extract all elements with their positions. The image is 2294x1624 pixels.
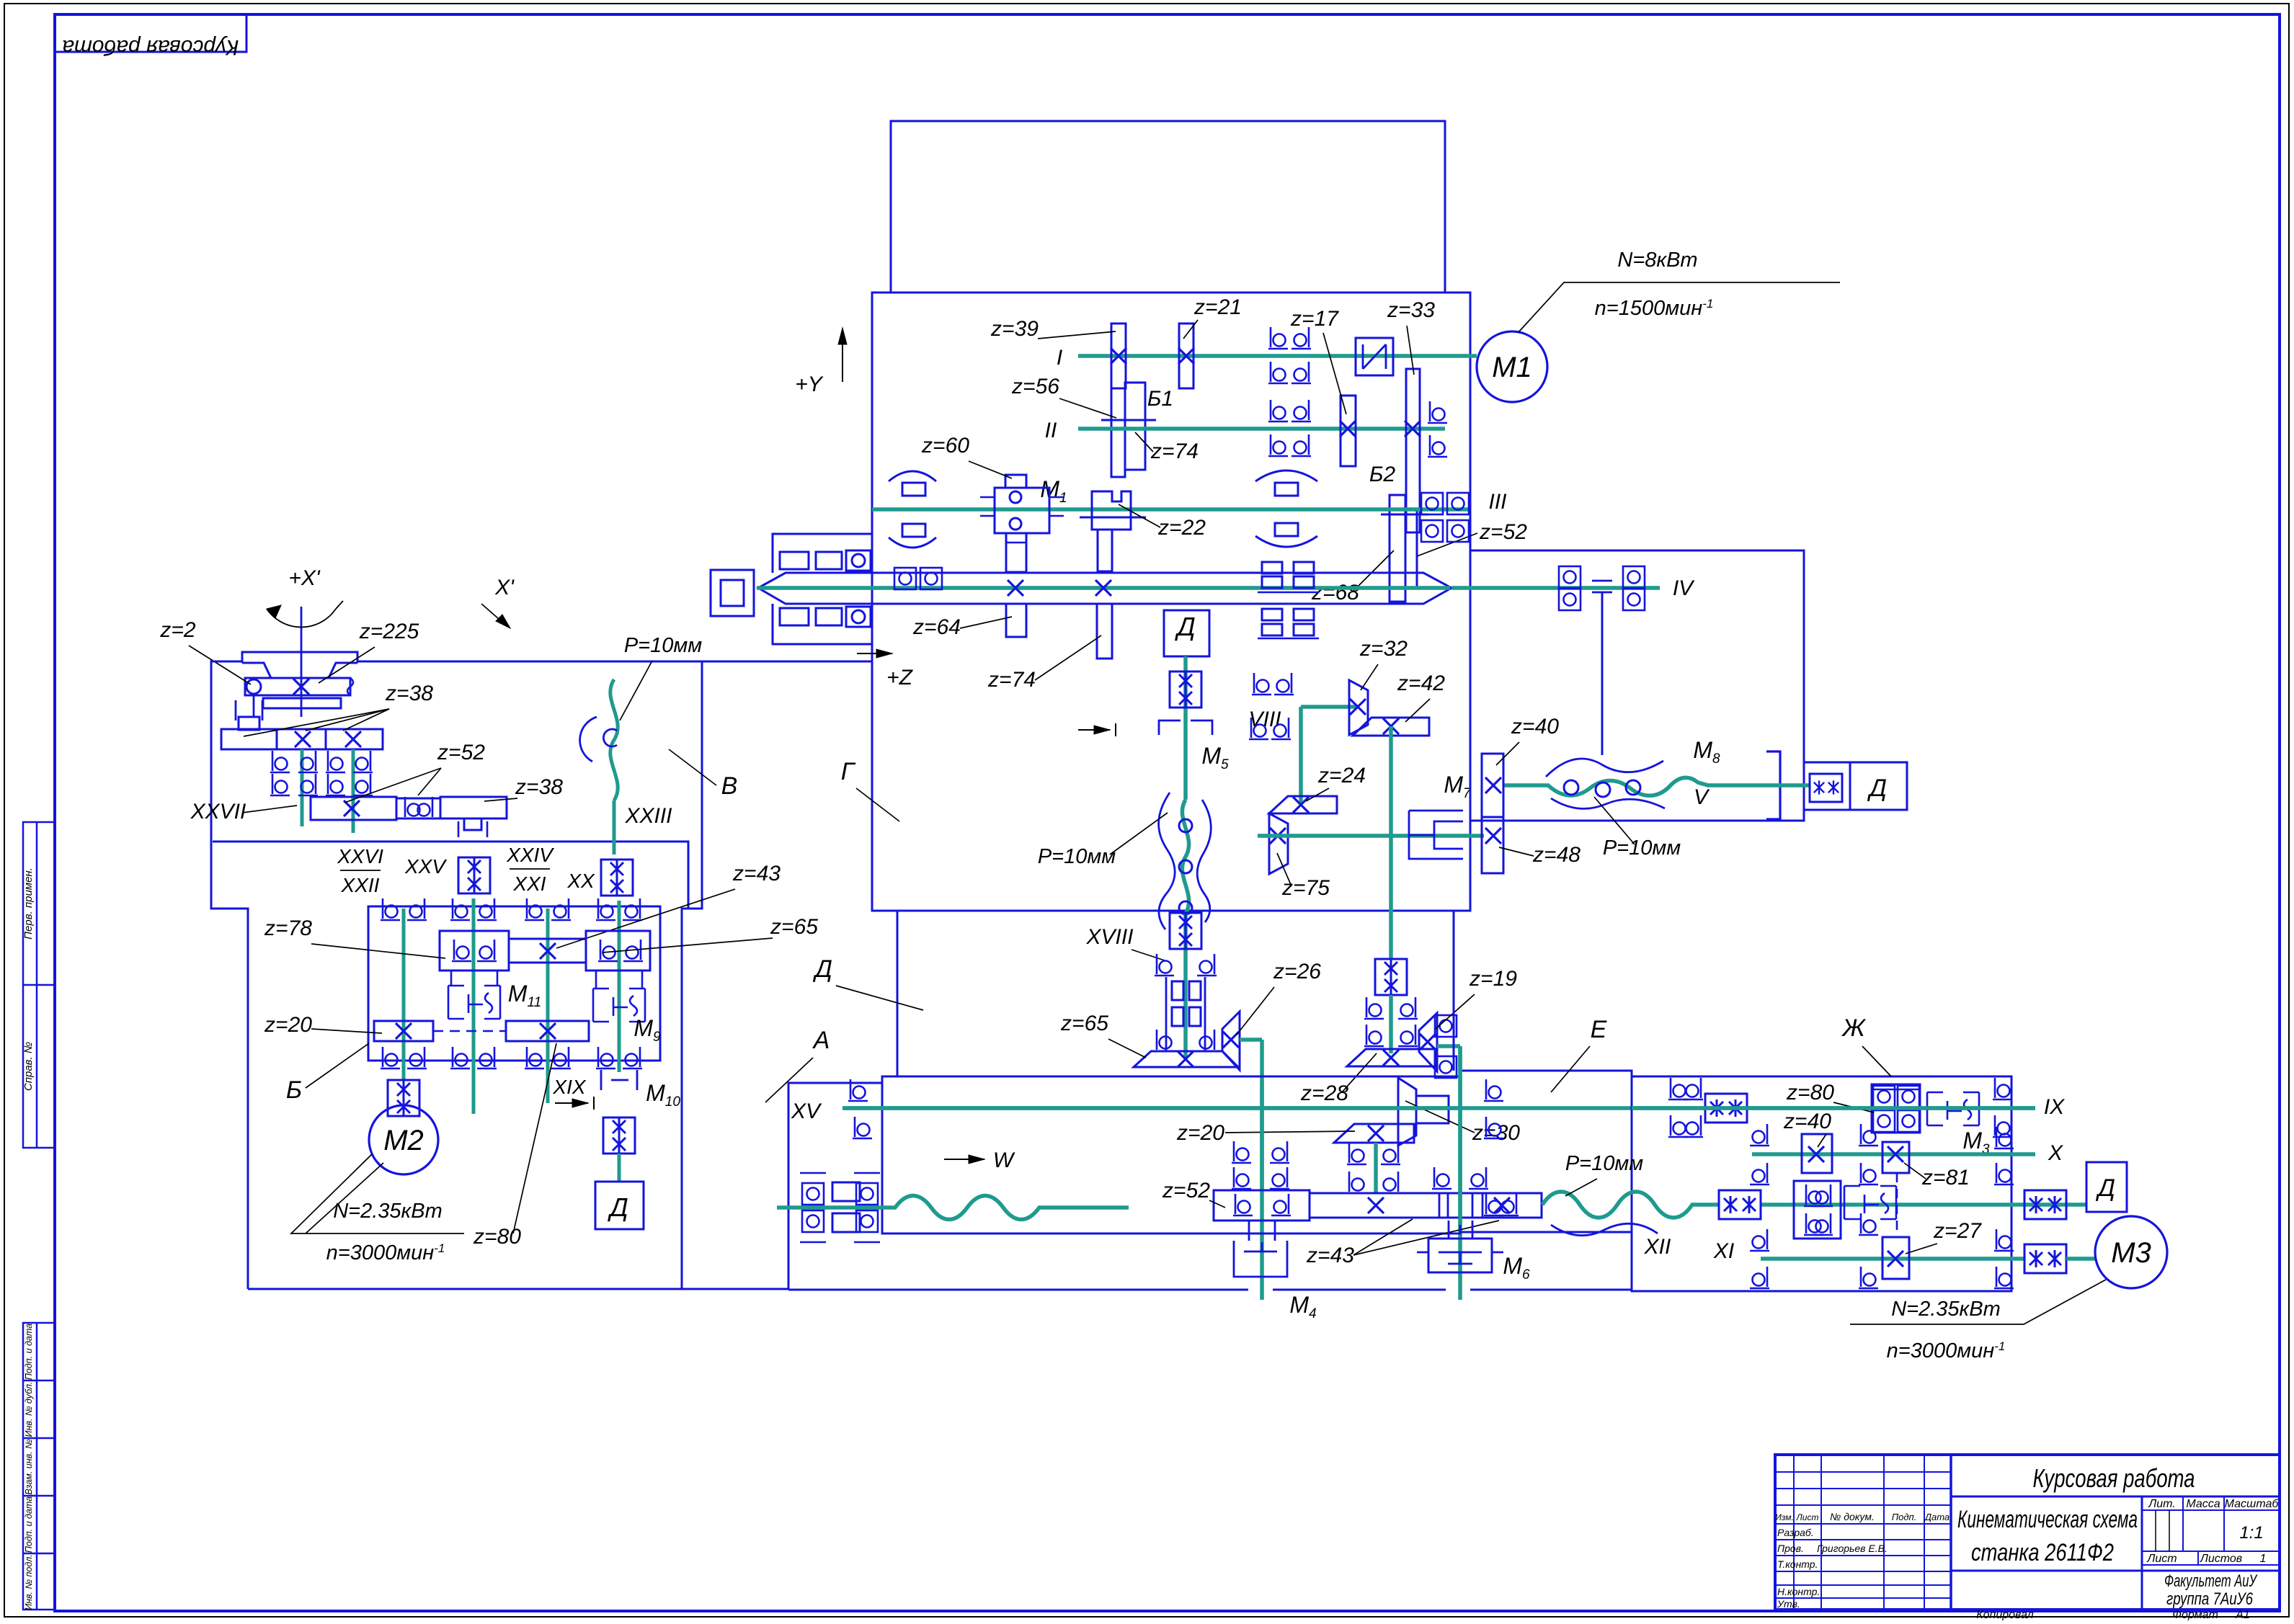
svg-text:IV: IV bbox=[1673, 576, 1695, 600]
svg-text:станка 2611Ф2: станка 2611Ф2 bbox=[1971, 1539, 2114, 1566]
bearings IV bbox=[1559, 566, 1581, 588]
dashed link bbox=[433, 1030, 506, 1032]
coupling z42 shaft bbox=[1375, 959, 1407, 995]
arrow XIX bbox=[555, 1102, 588, 1104]
one-way clutch on I bbox=[1356, 338, 1393, 375]
svg-text:n=3000мин-1: n=3000мин-1 bbox=[326, 1241, 445, 1264]
worm stem from IV bbox=[1601, 592, 1604, 755]
svg-text:N=8кВт: N=8кВт bbox=[1617, 249, 1697, 272]
svg-text:Курсовая работа: Курсовая работа bbox=[62, 35, 239, 59]
gear z=80 bbox=[506, 1021, 589, 1041]
coupling M5 shaft bbox=[1170, 672, 1201, 708]
clutch M9 bbox=[593, 989, 645, 1022]
svg-text:Лист: Лист bbox=[1796, 1512, 1819, 1522]
svg-text:Взам. инв. №: Взам. инв. № bbox=[24, 1439, 34, 1495]
box Ж bbox=[1632, 1076, 2011, 1291]
shaft IX line bbox=[1632, 1106, 2035, 1110]
clutch M7 bbox=[1409, 811, 1463, 859]
clutch M3el bbox=[1927, 1092, 1979, 1125]
shaft z20 down bbox=[1374, 1143, 1378, 1193]
gear z=33 bbox=[1406, 369, 1420, 532]
svg-text:Пров.: Пров. bbox=[1777, 1543, 1804, 1554]
svg-text:1:1: 1:1 bbox=[2239, 1523, 2263, 1543]
shaft XII bbox=[1701, 1203, 1719, 1207]
svg-text:z=22: z=22 bbox=[1157, 516, 1206, 540]
gear z=81 bbox=[1882, 1142, 1909, 1173]
top-left stamp box bbox=[55, 14, 246, 52]
svg-text:I: I bbox=[1057, 346, 1062, 370]
bevel z=75 bbox=[1269, 813, 1288, 874]
bearing block W bbox=[802, 1183, 824, 1205]
svg-text:Д: Д bbox=[607, 1192, 628, 1222]
bearings IX right bbox=[1993, 1078, 2012, 1099]
svg-text:z=81: z=81 bbox=[1921, 1166, 1970, 1190]
gear z=56 sleeve bbox=[1111, 388, 1125, 477]
shaft to M4 from z26 bbox=[1240, 1038, 1262, 1042]
spindle nose flange bbox=[773, 534, 873, 644]
svg-text:Инв. № дубл.: Инв. № дубл. bbox=[24, 1382, 34, 1437]
svg-text:XXI: XXI bbox=[512, 873, 546, 895]
spindle bearings left bbox=[894, 568, 916, 589]
svg-text:z=38: z=38 bbox=[515, 775, 563, 799]
gear bar z=43 bbox=[509, 939, 586, 963]
screw shafts XXVII bbox=[301, 749, 304, 826]
shaft II bbox=[1078, 427, 1445, 431]
worm V arcs bbox=[1546, 759, 1663, 777]
bevel z=24 bbox=[1269, 796, 1337, 813]
svg-text:Григорьев Е.В.: Григорьев Е.В. bbox=[1817, 1543, 1888, 1554]
svg-text:Д: Д bbox=[812, 955, 832, 983]
svg-text:z=17: z=17 bbox=[1290, 307, 1339, 331]
coupling XII right bbox=[2024, 1190, 2066, 1219]
feed box V bbox=[1470, 550, 1804, 821]
svg-text:M2: M2 bbox=[383, 1125, 424, 1156]
svg-text:z=38: z=38 bbox=[385, 682, 433, 705]
shaft IV bbox=[1451, 586, 1660, 590]
svg-text:Масштаб: Масштаб bbox=[2225, 1498, 2280, 1510]
gear bar z=43 in A bbox=[1310, 1193, 1542, 1218]
svg-text:z=43: z=43 bbox=[732, 862, 781, 885]
shaft XV bbox=[843, 1106, 2035, 1110]
svg-text:Дата: Дата bbox=[1924, 1512, 1950, 1522]
region D right edge bbox=[1453, 911, 1455, 1071]
left column strip upper bbox=[23, 822, 55, 1148]
gear z=68 bbox=[1390, 495, 1405, 602]
svg-text:XXVI: XXVI bbox=[337, 845, 383, 867]
svg-text:N=2.35кВт: N=2.35кВт bbox=[1891, 1298, 2001, 1321]
spline section XVIII bbox=[1166, 977, 1205, 1050]
svg-text:Изм.: Изм. bbox=[1775, 1512, 1794, 1522]
svg-text:Б: Б bbox=[286, 1076, 302, 1104]
stub to coupling bbox=[464, 818, 481, 830]
svg-text:z=28: z=28 bbox=[1300, 1081, 1348, 1105]
svg-text:z=40: z=40 bbox=[1511, 715, 1559, 739]
svg-text:+Z: +Z bbox=[886, 666, 914, 690]
svg-text:Р=10мм: Р=10мм bbox=[1565, 1152, 1643, 1175]
svg-text:Кинематическая схема: Кинематическая схема bbox=[1957, 1506, 2138, 1533]
axis +Z arrow bbox=[857, 653, 892, 654]
svg-text:III: III bbox=[1488, 490, 1506, 514]
gear z=27 bbox=[1882, 1237, 1909, 1279]
svg-text:z=33: z=33 bbox=[1387, 298, 1435, 322]
svg-text:XXIV: XXIV bbox=[506, 844, 554, 866]
svg-text:z=78: z=78 bbox=[264, 916, 312, 940]
worm shaft V bbox=[1503, 777, 1766, 795]
axis X' arrow bbox=[481, 604, 504, 624]
motor M3 bbox=[2066, 1257, 2095, 1261]
teal overlays bbox=[1458, 1046, 1462, 1225]
bevel z=19 bbox=[1419, 1013, 1437, 1071]
box А bbox=[882, 1076, 1460, 1233]
svg-text:M1: M1 bbox=[1492, 352, 1532, 383]
svg-text:Г: Г bbox=[841, 758, 856, 785]
gear z=74 lower bbox=[1097, 604, 1112, 659]
bevel z=42 bbox=[1353, 718, 1429, 736]
top cover box bbox=[891, 121, 1445, 293]
svg-text:V: V bbox=[1694, 785, 1710, 809]
svg-text:Д: Д bbox=[1867, 775, 1887, 802]
shaft XVIII lower bbox=[1183, 914, 1188, 1058]
svg-text:XVIII: XVIII bbox=[1085, 925, 1133, 949]
svg-text:z=24: z=24 bbox=[1317, 764, 1366, 788]
svg-text:Р=10мм: Р=10мм bbox=[624, 634, 702, 657]
svg-text:Листов: Листов bbox=[2200, 1553, 2242, 1565]
title block bbox=[1775, 1455, 2280, 1610]
clutch XII bbox=[1844, 1186, 1896, 1219]
svg-text:z=60: z=60 bbox=[921, 434, 969, 458]
gear z=39 bbox=[1111, 324, 1126, 388]
svg-text:В: В bbox=[721, 772, 738, 800]
svg-text:X': X' bbox=[494, 576, 515, 599]
svg-text:M3: M3 bbox=[2111, 1237, 2151, 1269]
bearings XI bbox=[1750, 1229, 1769, 1251]
bed line bottom bbox=[788, 1289, 1248, 1291]
clutch M11 bbox=[448, 986, 500, 1019]
coupling M2 bbox=[388, 1080, 419, 1116]
svg-text:z=27: z=27 bbox=[1933, 1219, 1982, 1243]
svg-text:Справ. №: Справ. № bbox=[22, 1042, 35, 1091]
coupling IX bbox=[1705, 1094, 1747, 1123]
svg-text:z=52: z=52 bbox=[437, 741, 485, 764]
svg-text:XXV: XXV bbox=[404, 855, 447, 878]
svg-text:Формат: Формат bbox=[2172, 1609, 2218, 1620]
screw XXIII bbox=[610, 679, 618, 800]
svg-text:z=19: z=19 bbox=[1469, 967, 1517, 991]
svg-text:z=32: z=32 bbox=[1359, 637, 1408, 661]
gear z=40 on V bbox=[1482, 754, 1503, 817]
coupling XII bbox=[1719, 1190, 1761, 1219]
svg-text:z=52: z=52 bbox=[1162, 1179, 1210, 1203]
svg-text:n=3000мин-1: n=3000мин-1 bbox=[1887, 1339, 2006, 1362]
svg-text:Е: Е bbox=[1591, 1016, 1607, 1043]
bearings shafts I-II bbox=[1268, 327, 1288, 349]
svg-text:XII: XII bbox=[1644, 1235, 1671, 1259]
spindle nose clamp bbox=[711, 570, 754, 616]
gear block z=80 Ж bbox=[1872, 1084, 1920, 1133]
svg-text:Н.контр.: Н.контр. bbox=[1777, 1586, 1820, 1597]
coupling XXIII-XX bbox=[601, 860, 633, 896]
bearings X bbox=[1750, 1124, 1769, 1146]
bearings above z52 bar bbox=[1232, 1141, 1251, 1163]
svg-text:А: А bbox=[812, 1027, 830, 1054]
svg-text:Т.контр.: Т.контр. bbox=[1777, 1558, 1818, 1570]
svg-text:z=39: z=39 bbox=[990, 317, 1039, 341]
gear z=64 bbox=[1006, 604, 1026, 637]
svg-text:А1: А1 bbox=[2235, 1609, 2250, 1620]
spindle bbox=[758, 573, 1451, 604]
shaft I bbox=[1078, 354, 1477, 358]
attach box with coupling and D bbox=[1804, 762, 1907, 810]
shaft of M7 bbox=[1258, 834, 1484, 838]
bearings shaft III right bbox=[1421, 493, 1443, 514]
svg-text:z=65: z=65 bbox=[1060, 1012, 1108, 1035]
svg-text:Б1: Б1 bbox=[1147, 387, 1173, 411]
svg-text:Б2: Б2 bbox=[1369, 463, 1396, 486]
bearings z42 shaft bbox=[1364, 997, 1384, 1019]
gear block z=52 in A bbox=[1214, 1190, 1310, 1221]
gear z=40 Ж bbox=[1802, 1134, 1832, 1173]
svg-text:XI: XI bbox=[1713, 1239, 1734, 1263]
svg-text:XXVII: XXVII bbox=[190, 800, 246, 824]
svg-text:z=48: z=48 bbox=[1532, 843, 1581, 867]
svg-text:Разраб.: Разраб. bbox=[1777, 1527, 1814, 1538]
gear cluster housing bbox=[368, 906, 660, 1061]
gear z=22 on III bbox=[1092, 491, 1131, 530]
svg-text:z=40: z=40 bbox=[1783, 1110, 1831, 1133]
bevel z=20 lower bbox=[1334, 1124, 1414, 1143]
worm fork bbox=[253, 695, 255, 717]
svg-text:Д: Д bbox=[2095, 1174, 2115, 1202]
gear z=60 block on III bbox=[1005, 475, 1026, 488]
svg-text:Р=10мм: Р=10мм bbox=[1038, 845, 1116, 868]
svg-text:Факультет АиУ: Факультет АиУ bbox=[2164, 1571, 2258, 1591]
box E bbox=[1460, 1071, 1632, 1232]
gear bar z=38 top bbox=[221, 729, 383, 749]
svg-text:Подп. и дата: Подп. и дата bbox=[24, 1496, 34, 1553]
svg-text:z=65: z=65 bbox=[770, 915, 818, 939]
shaft X bbox=[1752, 1152, 2035, 1156]
shaft W bbox=[777, 1196, 1129, 1220]
bearings VIII bbox=[1252, 673, 1271, 695]
svg-text:XV: XV bbox=[791, 1099, 822, 1123]
svg-text:Подп. и дата: Подп. и дата bbox=[24, 1324, 34, 1380]
bevel z=65 on XVIII bbox=[1134, 1051, 1238, 1067]
svg-text:Лит.: Лит. bbox=[2148, 1498, 2175, 1510]
svg-text:N=2.35кВт: N=2.35кВт bbox=[333, 1200, 443, 1223]
rotary table axis bbox=[301, 607, 303, 717]
svg-text:X: X bbox=[2048, 1141, 2063, 1165]
svg-text:XXII: XXII bbox=[341, 874, 380, 896]
axis +Y arrow bbox=[842, 333, 843, 382]
svg-text:z=74: z=74 bbox=[987, 668, 1036, 692]
bed outline bottom-left bbox=[248, 1083, 882, 1289]
svg-text:+X': +X' bbox=[288, 566, 321, 590]
svg-text:Лист: Лист bbox=[2146, 1553, 2177, 1565]
svg-text:z=26: z=26 bbox=[1273, 960, 1321, 983]
motor M2 bbox=[369, 1105, 438, 1174]
screw XVIII P=10mm bbox=[1182, 800, 1188, 914]
worm wheel z=225 bar bbox=[245, 678, 350, 695]
gear block z=65 bbox=[586, 931, 650, 971]
svg-text:№ докум.: № докум. bbox=[1830, 1511, 1875, 1522]
svg-text:Р=10мм: Р=10мм bbox=[1603, 836, 1681, 860]
svg-text:z=42: z=42 bbox=[1397, 672, 1445, 695]
bevel z=26 bbox=[1222, 1012, 1240, 1070]
bracket M10 bbox=[601, 1070, 637, 1090]
region Д connector bbox=[897, 911, 899, 1076]
stubs to M4 bbox=[1248, 1221, 1250, 1241]
svg-text:Перв. примен.: Перв. примен. bbox=[22, 867, 35, 940]
arrow W bbox=[944, 1159, 984, 1160]
bearings z33 right bbox=[1428, 401, 1447, 423]
gear bar z=52 bbox=[311, 797, 396, 820]
svg-text:Ж: Ж bbox=[1841, 1014, 1866, 1042]
clutch M4 bbox=[1234, 1241, 1287, 1277]
shaft XVIII upper bbox=[1183, 656, 1188, 800]
bracket M8 bbox=[1766, 751, 1780, 819]
table top plate bbox=[242, 652, 357, 678]
shaft VIII horizontal bbox=[1301, 705, 1358, 709]
left column strip lower bbox=[23, 1323, 55, 1610]
drive box Д on shaft XVIII bbox=[1164, 610, 1209, 656]
screw in E (XII left) bbox=[1542, 1192, 1701, 1218]
gear z=74 on II bbox=[1125, 383, 1145, 470]
svg-text:z=2: z=2 bbox=[159, 618, 196, 642]
motor M1 bbox=[1477, 331, 1547, 402]
bearings XV left bbox=[848, 1079, 868, 1101]
svg-text:группа 7АиУ6: группа 7АиУ6 bbox=[2166, 1589, 2253, 1609]
brake right on III bbox=[1255, 470, 1317, 481]
svg-text:z=80: z=80 bbox=[1786, 1081, 1834, 1105]
shaft III bbox=[872, 507, 1468, 512]
arrow mark bbox=[1078, 729, 1110, 731]
gear block z=78 bbox=[440, 931, 509, 971]
bearing rows cluster bbox=[381, 898, 400, 920]
shaft VIII vertical bbox=[1299, 707, 1303, 805]
svg-text:+Y: +Y bbox=[795, 372, 824, 396]
svg-text:z=20: z=20 bbox=[1176, 1121, 1224, 1145]
svg-text:XXIII: XXIII bbox=[624, 804, 672, 828]
bevel z=32 bbox=[1349, 680, 1368, 735]
bearings E box bbox=[1484, 1079, 1503, 1101]
bracket bbox=[1159, 720, 1212, 735]
coupling XI bbox=[2024, 1244, 2066, 1273]
table lower plate bbox=[263, 698, 341, 708]
svg-text:Инв. № подл.: Инв. № подл. bbox=[24, 1554, 34, 1610]
svg-text:z=52: z=52 bbox=[1479, 520, 1527, 544]
coupling XIX bbox=[603, 1117, 635, 1154]
gear z=17 bbox=[1341, 396, 1356, 466]
gear block XII bbox=[1794, 1181, 1841, 1239]
svg-text:W: W bbox=[993, 1148, 1015, 1172]
gear z=48 bbox=[1482, 817, 1503, 873]
svg-text:1: 1 bbox=[2260, 1553, 2267, 1565]
svg-text:Д: Д bbox=[1174, 612, 1195, 641]
svg-text:n=1500мин-1: n=1500мин-1 bbox=[1595, 297, 1714, 320]
svg-text:XIX: XIX bbox=[552, 1076, 586, 1098]
svg-text:XX: XX bbox=[566, 870, 595, 892]
svg-text:z=64: z=64 bbox=[912, 615, 961, 639]
bevel z=28 bbox=[1347, 1049, 1435, 1066]
coupling XVIII bbox=[1170, 913, 1201, 949]
svg-text:z=43: z=43 bbox=[1306, 1244, 1354, 1267]
svg-text:z=20: z=20 bbox=[264, 1013, 312, 1037]
coupling XXV top bbox=[458, 857, 490, 893]
svg-text:z=56: z=56 bbox=[1011, 375, 1059, 398]
shaft XI bbox=[1761, 1257, 2024, 1261]
svg-text:Подп.: Подп. bbox=[1892, 1512, 1917, 1522]
gear z=21 bbox=[1179, 324, 1193, 388]
bevel z=30 on XV bbox=[1398, 1078, 1416, 1146]
housing B outline bbox=[357, 661, 872, 663]
svg-text:IX: IX bbox=[2044, 1095, 2065, 1119]
spindle bearing blocks right bbox=[1262, 562, 1282, 574]
shaft to E box and M6 bbox=[1437, 1044, 1460, 1048]
svg-text:Копировал: Копировал bbox=[1976, 1609, 2034, 1620]
drive D box XIX bbox=[618, 1154, 621, 1182]
svg-text:II: II bbox=[1045, 419, 1057, 442]
cluster shafts bbox=[402, 909, 406, 1079]
svg-text:Утв.: Утв. bbox=[1777, 1598, 1800, 1610]
svg-text:Курсовая работа: Курсовая работа bbox=[2033, 1463, 2195, 1493]
svg-text:Масса: Масса bbox=[2186, 1498, 2220, 1510]
bearings under z38 bar bbox=[270, 751, 290, 772]
drive D box XII bbox=[2086, 1162, 2127, 1212]
svg-text:z=21: z=21 bbox=[1193, 295, 1242, 319]
gear z=20 bbox=[374, 1021, 433, 1041]
rotation arc +X bbox=[267, 609, 336, 627]
brake left on III bbox=[889, 471, 936, 481]
clutch M6 bbox=[1428, 1239, 1492, 1272]
svg-text:z=74: z=74 bbox=[1150, 440, 1199, 463]
dashed link z81-z27 bbox=[1896, 1173, 1898, 1237]
shaft z42 down bbox=[1389, 726, 1393, 960]
gearbox housing Г bbox=[872, 293, 1470, 911]
svg-text:z=225: z=225 bbox=[359, 620, 419, 643]
